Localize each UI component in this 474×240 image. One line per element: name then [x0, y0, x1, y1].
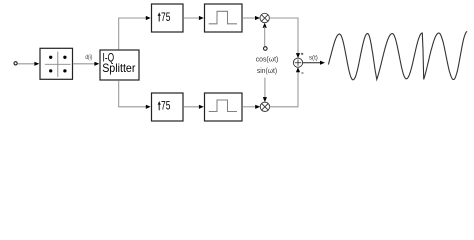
wire input to constellation [18, 63, 36, 65]
mixer top (multiplier) [260, 13, 269, 22]
pulse shaping filter box (top) [205, 4, 243, 32]
oscillator arrow up into top mixer [263, 23, 267, 28]
oscillator wire down to bottom mixer [264, 78, 266, 99]
svg-text:75: 75 [161, 10, 171, 24]
constellation box [40, 48, 73, 79]
constellation cross [45, 52, 71, 77]
wire splitter up to top row [119, 18, 147, 50]
constellation dots [49, 56, 67, 73]
oscillator node [264, 47, 268, 51]
upsample 75 box (bottom) [152, 93, 184, 121]
upsample 75 box (top) [152, 4, 184, 32]
summer [293, 58, 302, 67]
wire pulse filter to mixer (bottom) [242, 106, 256, 108]
wire constellation to splitter [73, 63, 96, 65]
wire pulse filter to mixer (top) [242, 17, 256, 19]
summer minus label [301, 72, 303, 74]
waveform s(t) [328, 32, 467, 80]
svg-text:s(t): s(t) [309, 54, 318, 61]
wire splitter down to bottom row [119, 80, 147, 107]
summer plus label [301, 53, 303, 55]
svg-text:sin(ωt): sin(ωt) [257, 68, 277, 75]
svg-text:cos(ωt): cos(ωt) [256, 57, 279, 64]
wire up75 to pulse filter (top) [183, 17, 200, 19]
I-Q splitter box [100, 50, 139, 80]
wire bottom mixer to summer corner [270, 72, 298, 107]
pulse shaping filter box (bottom) [205, 93, 243, 121]
mixer bottom (multiplier) [260, 102, 269, 111]
output wire [303, 62, 321, 64]
wire up75 to pulse filter (bottom) [183, 106, 200, 108]
svg-text:Splitter: Splitter [102, 61, 135, 75]
svg-text:75: 75 [161, 99, 171, 113]
input node [14, 62, 17, 65]
svg-text:d(i): d(i) [85, 54, 92, 61]
wire top mixer to summer corner [269, 18, 298, 54]
